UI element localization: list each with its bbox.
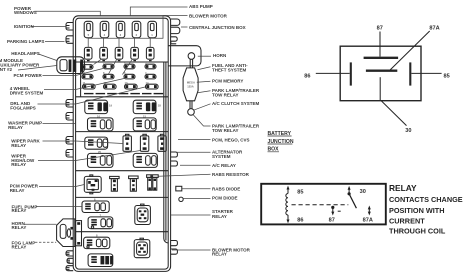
pcm diode symbol [179, 197, 183, 201]
svg-text:THROUGH COIL: THROUGH COIL [389, 227, 446, 236]
cartridge relay R1 [84, 47, 92, 59]
relay block F3 [84, 234, 110, 249]
svg-text:RELAY: RELAY [12, 225, 27, 230]
pin 85 wire [411, 72, 441, 74]
relay block B1 [88, 114, 114, 130]
svg-text:RABS DIODE: RABS DIODE [212, 187, 240, 192]
wire rabs resistor leader [158, 174, 210, 176]
mega fuse hexagon [183, 68, 198, 101]
svg-text:WINDOWS: WINDOWS [14, 10, 37, 15]
dashed travel line [292, 204, 349, 206]
pin connector V3 [158, 134, 166, 151]
starter relay socket G1 [135, 204, 151, 224]
relay block A1 [85, 100, 113, 113]
svg-text:13: 13 [125, 81, 128, 85]
coil arrowhead down [287, 220, 290, 224]
pin connector V1 [123, 134, 131, 151]
battery junction box underlines [268, 136, 293, 152]
small dash near 87 [338, 210, 341, 212]
wire pcm hego cvs leader [178, 139, 211, 141]
divider y62 [76, 61, 169, 63]
mini fuse 4A [145, 61, 156, 69]
svg-text:PCM MEMORY: PCM MEMORY [212, 78, 243, 83]
svg-text:RELAY: RELAY [12, 208, 27, 213]
central junction box bracket lower [171, 27, 180, 33]
mini fuse 1B [82, 71, 93, 79]
pin 86 wire [316, 72, 350, 74]
relay block D1 [88, 150, 114, 167]
relay block F4 [88, 254, 113, 267]
svg-text:15: 15 [143, 114, 146, 118]
svg-text:30: 30 [360, 189, 366, 195]
svg-text:ABS PUMP: ABS PUMP [189, 4, 213, 9]
svg-text:PCM, HEGO, CVS: PCM, HEGO, CVS [212, 137, 250, 142]
pin 87A wire [390, 31, 430, 70]
relay block F1 [82, 198, 109, 213]
common contact bar [366, 70, 397, 72]
wire park lamp tow relay leader 2 [193, 115, 211, 127]
svg-text:PCM DIODE: PCM DIODE [212, 195, 238, 200]
relay row tick marks [87, 60, 152, 61]
wire parking lamps leader [45, 41, 65, 43]
svg-text:86: 86 [304, 73, 310, 79]
relay block C1 [85, 137, 108, 149]
left clip y257 [67, 258, 73, 263]
power distribution box outer wall [73, 16, 170, 272]
wire horn leader [198, 55, 211, 57]
coil arrowhead up [287, 186, 290, 190]
svg-text:TOW RELAY: TOW RELAY [212, 128, 239, 133]
maxi fuse F3 [116, 21, 125, 38]
connector E2 [110, 176, 120, 191]
terminal 87 dot [331, 206, 334, 209]
svg-text:14: 14 [146, 81, 149, 85]
wire rabs diode leader [182, 188, 211, 190]
divider y170.7 [76, 170, 169, 172]
wire central junction box leader [181, 26, 188, 28]
terminal 87A arrowhead down [368, 212, 371, 216]
svg-text:CURRENT: CURRENT [389, 216, 425, 225]
switch pivot arrowhead [348, 186, 351, 190]
relay explanation text [389, 195, 463, 236]
wire module leader [18, 66, 57, 71]
svg-text:RELAY: RELAY [12, 244, 27, 249]
mega fuse lower stem [190, 101, 192, 109]
mini fuse 3A [124, 61, 135, 69]
central junction box bracket upper [171, 19, 180, 25]
svg-text:PARKING LAMPS: PARKING LAMPS [7, 39, 44, 44]
svg-text:SYSTEM: SYSTEM [212, 154, 231, 159]
svg-text:30: 30 [405, 128, 411, 134]
mini fuse 3B [124, 71, 135, 79]
wire ignition leader [31, 26, 66, 28]
svg-text:RELAY: RELAY [212, 252, 227, 257]
grid left wall [80, 62, 82, 97]
wire wiper park leader [43, 141, 124, 144]
right clip y161 [171, 161, 178, 166]
svg-text:19: 19 [109, 104, 112, 108]
right clip y248 [171, 249, 178, 254]
svg-text:85: 85 [297, 189, 303, 195]
left clip y265 [66, 266, 73, 271]
pin 30 stem wire [379, 77, 381, 101]
svg-text:RELAY: RELAY [11, 143, 26, 148]
socket E1 [84, 175, 101, 194]
svg-text:87A: 87A [363, 218, 373, 224]
wire pcm diode leader [183, 198, 210, 200]
mini fuse 1A [82, 61, 93, 69]
right extension housing [168, 46, 201, 66]
left clip y149 [66, 150, 73, 158]
switch pivot dot [348, 192, 351, 195]
svg-text:87: 87 [377, 26, 383, 32]
svg-text:FOGLAMPS: FOGLAMPS [10, 106, 36, 111]
svg-text:DRIVE SYSTEM: DRIVE SYSTEM [10, 91, 44, 96]
divider y197.4 [76, 196, 169, 198]
pin 85 contact bar [409, 62, 411, 85]
svg-text:CENTRAL JUNCTION BOX: CENTRAL JUNCTION BOX [189, 25, 246, 30]
right clip y152 [171, 152, 178, 157]
svg-text:125A: 125A [187, 85, 193, 89]
wire horn relay leader [24, 223, 56, 225]
cartridge relay R2 [100, 47, 108, 59]
rabs diode symbol [176, 186, 182, 191]
wire ac clutch leader [194, 104, 211, 110]
pin 87 contact bar [364, 57, 399, 59]
left clip y35 [66, 36, 73, 44]
svg-text:MEGA: MEGA [187, 81, 195, 85]
mini fuse 1C [83, 81, 96, 89]
wire ac relay leader [180, 164, 211, 166]
svg-text:POINT #2: POINT #2 [0, 67, 13, 72]
relay block F2 [88, 213, 113, 228]
svg-text:CONTACTS CHANGE: CONTACTS CHANGE [389, 195, 463, 204]
wire starter relay leader [171, 214, 211, 216]
wire blower motor relay leader [172, 249, 211, 251]
svg-text:BLOWER MOTOR: BLOWER MOTOR [189, 13, 228, 18]
relay block D2 [133, 153, 157, 167]
left clip y22 [66, 23, 73, 31]
svg-text:18: 18 [158, 104, 161, 108]
cartridge relay R5 [146, 47, 154, 59]
pin connector V2 [140, 134, 148, 151]
wire park lamp tow relay leader 1 [198, 91, 211, 93]
right clip y36 [171, 37, 177, 44]
pin 30 wire [381, 101, 406, 126]
wire fuel anti-theft leader [198, 67, 211, 70]
svg-text:RABS RESISTOR: RABS RESISTOR [212, 172, 250, 177]
svg-text:16: 16 [97, 114, 100, 118]
svg-text:TOW RELAY: TOW RELAY [212, 92, 239, 97]
left clip y248 [66, 251, 73, 256]
wire relay row diagonals [94, 59, 133, 74]
svg-text:PCM POWER: PCM POWER [14, 73, 43, 78]
horn relay octagon connector [57, 219, 82, 247]
svg-text:A/C CLUTCH SYSTEM: A/C CLUTCH SYSTEM [212, 101, 260, 106]
maxi fuse F4 [132, 21, 141, 38]
relay pinout box [340, 46, 421, 100]
mini fuse 3C [125, 81, 138, 89]
wire 4 wheel drive leader [44, 79, 124, 90]
relay block B2 [133, 114, 156, 130]
power distribution box inner wall [76, 18, 169, 269]
maxi fuse F2 [100, 21, 109, 38]
connector E4 [147, 175, 159, 190]
pin 86 contact bar [350, 62, 352, 85]
svg-text:RELAY: RELAY [10, 188, 25, 193]
wire fog lamp relay leader [35, 241, 56, 243]
lower terminal circle [188, 109, 195, 116]
wire pcm memory leader [197, 81, 211, 82]
wire power windows leader [35, 11, 101, 16]
divider y96.8 [76, 96, 169, 98]
mini fuse 4C [146, 81, 159, 89]
left module connector [57, 57, 85, 74]
cartridge relay R4 [131, 47, 139, 59]
wire pcm power leader [43, 69, 104, 76]
svg-text:HEADLAMPS: HEADLAMPS [11, 51, 40, 56]
svg-text:87A: 87A [429, 26, 439, 32]
divider y231.7 [76, 231, 169, 233]
label BATTERY JUNCTION BOX [268, 131, 294, 153]
svg-text:IGNITION: IGNITION [14, 24, 34, 29]
left clip y99 [66, 100, 73, 108]
coil symbol with motion arrows [286, 189, 288, 221]
svg-text:HORN: HORN [213, 53, 226, 58]
svg-text:87: 87 [329, 218, 335, 224]
right clip y240 [171, 241, 178, 246]
left clip y136 [66, 137, 73, 145]
wire fuel pump relay leader [36, 206, 82, 208]
wire abs pump leader [130, 7, 187, 16]
svg-text:20: 20 [98, 150, 101, 154]
terminal dash row [84, 93, 163, 94]
wire wiper high-low leader [38, 151, 140, 161]
pin 87 wire [379, 32, 381, 57]
svg-text:85: 85 [444, 73, 450, 79]
divider y131.6 [76, 131, 169, 133]
svg-text:86: 86 [297, 218, 303, 224]
svg-text:RELAY: RELAY [11, 162, 26, 167]
terminal 87A arrowhead up [368, 206, 371, 210]
svg-text:RELAY: RELAY [389, 183, 417, 193]
horn terminal circle [188, 53, 195, 60]
maxi fuse F5 [148, 21, 157, 38]
svg-text:RELAY: RELAY [8, 125, 23, 130]
interior right channel wall inner [165, 62, 167, 241]
wire alternator leader [177, 151, 211, 153]
wire pcm power relay leader [39, 185, 84, 187]
connector E3 [129, 176, 139, 191]
mini fuse 2B [103, 71, 114, 79]
svg-text:A/C RELAY: A/C RELAY [212, 163, 236, 168]
interior right channel wall [164, 62, 168, 243]
svg-text:RELAY: RELAY [212, 214, 227, 219]
svg-text:POSITION WITH: POSITION WITH [389, 206, 445, 215]
wire headlamps leader [39, 54, 57, 61]
relay explanation box [261, 184, 386, 225]
switch blade [349, 194, 356, 208]
wire blower motor leader [88, 16, 187, 48]
terminal 87A arrow wire [368, 209, 370, 212]
wire washer pump leader [43, 123, 76, 125]
horn terminal neck [190, 59, 192, 68]
switch pivot wire [348, 189, 350, 193]
maxi fuse F1 [84, 21, 93, 38]
svg-text:THEFT SYSTEM: THEFT SYSTEM [212, 68, 247, 73]
mini fuse 2A [103, 61, 114, 69]
mini fuse 4B [145, 71, 156, 79]
blower motor relay socket G2 [134, 238, 150, 258]
terminal 87 arrowhead [331, 212, 334, 216]
cartridge relay R3 [115, 47, 123, 59]
terminal 87 arrow wire [332, 207, 334, 212]
wire drl leader [38, 87, 146, 104]
left clip y112 [66, 113, 73, 121]
mini fuse 2C [104, 81, 117, 89]
relay block A2 [133, 100, 161, 113]
